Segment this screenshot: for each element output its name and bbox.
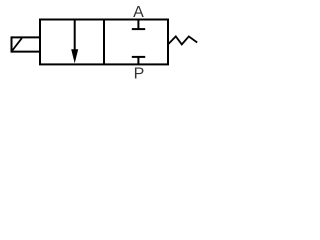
solenoid box bottom line xyxy=(12,51,41,53)
valve body (2/2-way valve, two position boxes) xyxy=(40,20,168,65)
flow path arrowhead xyxy=(71,49,78,63)
svg-text:P: P xyxy=(134,66,145,82)
port P blocked symbol stem xyxy=(137,57,139,65)
solenoid box left edge xyxy=(11,36,13,52)
solenoid diagonal xyxy=(12,38,22,51)
svg-text:A: A xyxy=(133,4,144,21)
return spring xyxy=(169,36,198,44)
port A blocked symbol bar xyxy=(132,28,145,30)
port A blocked symbol stem xyxy=(137,20,139,29)
solenoid box top line xyxy=(12,36,41,38)
flow path arrow stem (left box) xyxy=(74,20,76,51)
port P blocked symbol bar xyxy=(132,56,145,58)
position divider xyxy=(103,20,105,65)
